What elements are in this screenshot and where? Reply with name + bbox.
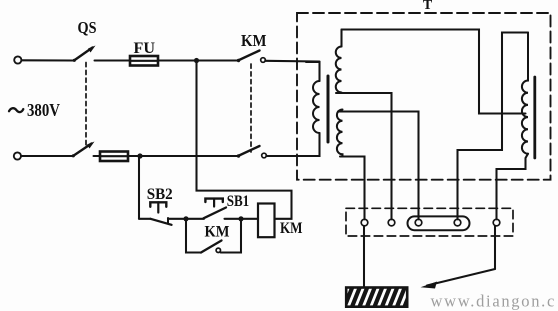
wire secondary lower bottom to t1	[340, 157, 365, 220]
node tap bottom	[137, 153, 142, 158]
pushbutton SB1 blade	[204, 208, 227, 219]
wire QS to FU	[95, 59, 131, 61]
pushbutton SB2 blade	[151, 219, 172, 225]
terminal t2	[388, 219, 395, 226]
transformer T secondary upper	[336, 30, 342, 93]
svg-text:KM: KM	[241, 31, 267, 50]
wire reactor bottom to t5	[497, 154, 529, 220]
pushbutton SB1 actuator	[205, 199, 222, 207]
terminal t3	[415, 219, 422, 226]
wire SB1 to node B	[225, 218, 242, 220]
svg-text:FU: FU	[134, 40, 156, 57]
QS linkage dashed	[85, 63, 87, 147]
wire L1 to QS	[22, 59, 75, 61]
jumper link stadium	[408, 216, 470, 230]
KM linkage dashed	[250, 64, 252, 152]
wire t5 electrode drop	[494, 226, 496, 269]
transformer T core	[327, 76, 330, 142]
wire secondary upper top to reactor tap	[342, 30, 526, 114]
terminal t1	[361, 219, 368, 226]
switch QS bottom pole	[72, 142, 95, 158]
svg-text:T: T	[423, 0, 433, 13]
transformer T secondary lower	[337, 110, 343, 157]
terminal t4	[454, 219, 461, 226]
contactor KM main contact bottom	[237, 146, 320, 158]
label ~380V	[9, 108, 23, 112]
svg-text:QS: QS	[78, 18, 97, 37]
wire aux loop left	[186, 219, 201, 253]
workpiece block hatched	[344, 288, 412, 309]
svg-text:SB1: SB1	[227, 193, 250, 210]
wire node A to SB1	[186, 218, 204, 220]
contactor KM main contact top	[237, 51, 320, 63]
svg-text:380V: 380V	[27, 100, 60, 120]
transformer T primary winding	[306, 62, 320, 156]
node tap top	[194, 58, 199, 63]
node L2 terminal	[14, 152, 21, 159]
reactor core	[533, 77, 536, 158]
transformer box T dashed	[297, 13, 551, 180]
wire secondary upper bottom to t2	[336, 93, 392, 219]
electrode arrow	[421, 269, 496, 289]
svg-text:KM: KM	[205, 224, 230, 241]
terminal board dashed box	[346, 208, 513, 236]
svg-text:www.diangon.c: www.diangon.c	[431, 292, 557, 311]
node L1 terminal	[14, 56, 21, 63]
contactor KM auxiliary contact	[201, 241, 222, 253]
wire FU to KM	[158, 59, 238, 61]
wire QS to FU2	[94, 155, 101, 157]
coil KM	[258, 204, 275, 238]
terminal t5	[493, 219, 500, 226]
wire t1 to workpiece	[363, 226, 365, 287]
switch QS top pole	[73, 46, 96, 62]
svg-text:SB2: SB2	[147, 186, 173, 203]
pushbutton SB2 actuator	[150, 202, 166, 212]
fuse FU1	[130, 56, 158, 66]
wire coil to right riser	[197, 61, 292, 219]
reactor winding	[522, 33, 528, 154]
wire secondary lower top to t3	[338, 112, 419, 220]
wire L2 to QS	[21, 155, 73, 157]
wire FU2 to KM bottom	[128, 155, 238, 157]
node B	[238, 216, 243, 221]
node A	[183, 216, 188, 221]
pushbutton SB2 contact tick	[167, 218, 169, 223]
wire node B to coil	[241, 218, 258, 220]
svg-text:KM: KM	[280, 220, 303, 237]
wire aux loop right	[221, 219, 241, 253]
wire SB2 to node A	[168, 218, 186, 220]
fuse FU2	[100, 152, 128, 162]
wire reactor top to t4	[458, 33, 529, 220]
wire SB2 stub	[139, 218, 151, 220]
wire control left drop	[138, 156, 140, 219]
